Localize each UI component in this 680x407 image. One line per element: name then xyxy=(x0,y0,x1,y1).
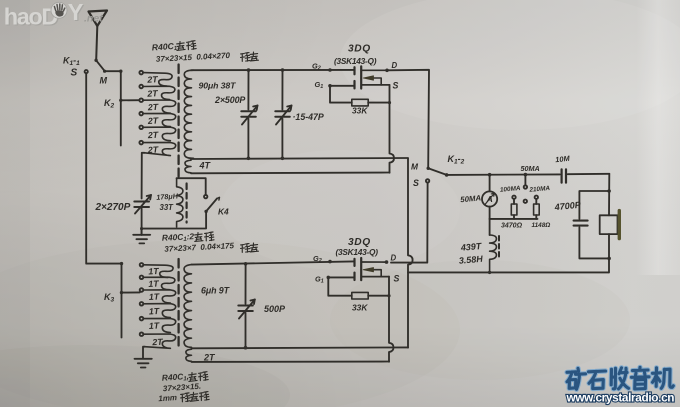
node 4700P bottom xyxy=(607,257,611,261)
wire T2 primary bottom to ground xyxy=(143,347,145,359)
inductor L3 33T coupling xyxy=(177,178,183,227)
label 2T taps T1 xyxy=(146,74,159,155)
resistor 3470 xyxy=(511,196,517,219)
svg-text:S: S xyxy=(393,81,399,91)
node 4700P top xyxy=(607,189,611,193)
node G2 lower terminal xyxy=(328,260,332,264)
wire shunt link xyxy=(524,175,526,186)
transformer T1 secondary winding 38T xyxy=(184,70,193,158)
svg-text:50MA: 50MA xyxy=(521,164,540,173)
node Q1 drain xyxy=(385,69,389,73)
transformer T2 secondary winding 2T xyxy=(186,349,192,361)
svg-text:33K: 33K xyxy=(352,105,368,115)
svg-text:M: M xyxy=(411,161,419,171)
resistor 1148 xyxy=(534,196,540,219)
svg-text:6μh 9T: 6μh 9T xyxy=(201,285,231,295)
switch K2 arm xyxy=(119,99,139,102)
meter A 50MA xyxy=(482,175,497,219)
svg-text:500P: 500P xyxy=(264,304,286,314)
wire coupling loop bottom xyxy=(142,211,207,234)
svg-text:1mm: 1mm xyxy=(158,393,177,403)
svg-text:S: S xyxy=(394,273,400,283)
wire M of K1-1 to K2 bus xyxy=(105,70,121,72)
node coupling bottom join xyxy=(140,227,143,230)
svg-text:4T: 4T xyxy=(199,160,212,170)
svg-text:2T: 2T xyxy=(147,115,159,126)
switch K3 arm xyxy=(120,291,140,294)
node meter top xyxy=(488,173,492,177)
ground T1 tuning xyxy=(133,235,150,244)
svg-text:1148Ω: 1148Ω xyxy=(532,222,551,229)
wire T1 bottom rail to FET1 source xyxy=(191,172,390,175)
variable capacitor 2x500P xyxy=(241,70,257,158)
wire Q1 drain to K1-2 M xyxy=(387,70,429,167)
svg-text:90μh 38T: 90μh 38T xyxy=(199,81,237,91)
node cap1 bottom xyxy=(247,157,251,161)
svg-text:(3SK143-Q): (3SK143-Q) xyxy=(334,56,377,66)
svg-text:D: D xyxy=(392,61,398,70)
hanzi bot2 xyxy=(180,391,209,402)
wire K2 bus vertical xyxy=(120,71,122,145)
resistor 33K lower xyxy=(328,277,389,299)
wire Q2 source down with hop xyxy=(389,277,394,362)
switch K1-2 xyxy=(426,167,449,183)
svg-text:(3SK143-Q): (3SK143-Q) xyxy=(336,247,379,257)
watermark haoDIY xyxy=(4,0,103,31)
wire meter to choke xyxy=(489,219,491,235)
capacitor 10M series xyxy=(562,169,610,182)
core L3 xyxy=(186,184,188,223)
svg-text:www.crystalradio.cn: www.crystalradio.cn xyxy=(566,391,675,405)
hanzi mid1 xyxy=(194,232,214,242)
node Q2 drain xyxy=(385,260,389,264)
inductor 439T choke xyxy=(490,235,497,272)
node cap1 top xyxy=(247,68,251,72)
node K3 bus top xyxy=(120,262,123,265)
node choke bottom xyxy=(488,271,491,274)
svg-text:10M: 10M xyxy=(555,154,571,165)
transistor Q2 3DQ 3SK143 xyxy=(355,258,390,280)
svg-text:1T: 1T xyxy=(149,291,160,302)
wire right rail down xyxy=(608,174,610,216)
wire S of K1-1 down left side xyxy=(86,73,121,263)
node 33K upper join xyxy=(388,101,391,104)
svg-text:2T: 2T xyxy=(146,88,158,99)
svg-text:1T: 1T xyxy=(149,320,160,331)
svg-text:·15-47P: ·15-47P xyxy=(293,112,324,122)
hanzi top1 xyxy=(176,40,196,50)
variable capacitor 500P xyxy=(238,264,255,348)
resistor 33K upper xyxy=(330,86,390,106)
wire T2 bottom rail to FET2 source xyxy=(192,361,390,363)
variable capacitor 2x270P xyxy=(134,195,151,235)
svg-text:33T: 33T xyxy=(160,203,175,212)
node link contact upper xyxy=(524,185,527,188)
wire G2 rail T2 to FET2 xyxy=(192,261,354,264)
node G2 terminal xyxy=(328,68,332,72)
svg-text:2T: 2T xyxy=(146,74,158,85)
switch K1-1 xyxy=(85,59,107,74)
svg-text:haoD: haoD xyxy=(4,3,58,29)
wire K1-2 S down to Q2 drain xyxy=(391,183,428,263)
svg-text:3DQ: 3DQ xyxy=(348,44,371,55)
svg-text:.net: .net xyxy=(84,13,103,25)
node Q1 G1 xyxy=(328,84,332,88)
wire output rail xyxy=(447,173,560,176)
transformer T1 secondary winding 4T xyxy=(185,160,191,173)
node cap2 top xyxy=(281,68,285,72)
svg-text:178μH: 178μH xyxy=(156,191,179,202)
svg-text:2×500P: 2×500P xyxy=(214,95,245,105)
wire Q1 source down with hop xyxy=(390,85,395,173)
node cap2 bottom xyxy=(281,157,285,161)
svg-text:A: A xyxy=(486,194,493,204)
wire T1 primary bottom to tuning cap xyxy=(142,153,145,199)
transformer T2 primary winding 5x1T+2T xyxy=(143,265,175,349)
ground T2 xyxy=(135,359,152,368)
svg-text:S: S xyxy=(71,68,78,79)
svg-text:2T: 2T xyxy=(147,144,159,155)
label 1T taps T2 xyxy=(148,266,163,347)
wire bottom rail xyxy=(408,271,609,273)
transformer T2 core xyxy=(177,259,179,349)
svg-text:2T: 2T xyxy=(147,130,159,141)
svg-text:3470Ω: 3470Ω xyxy=(501,222,523,229)
hanzi mid2 xyxy=(240,243,258,253)
transformer T1 core xyxy=(177,65,179,177)
node 500P top xyxy=(244,262,248,266)
node 500P bottom xyxy=(244,346,248,350)
transformer T1 primary tap contacts xyxy=(139,71,143,145)
svg-text:439T: 439T xyxy=(459,241,483,253)
svg-text:3.58H: 3.58H xyxy=(458,254,483,266)
capacitor 4700P xyxy=(574,191,610,258)
transformer T2 tap contacts xyxy=(140,263,144,336)
transformer T1 primary winding 6x2T xyxy=(143,73,176,156)
svg-text:33K: 33K xyxy=(352,302,368,312)
node 33K lower join xyxy=(387,294,390,297)
wire meter bottom bus xyxy=(490,218,538,220)
svg-text:1T: 1T xyxy=(148,278,159,289)
wire Q1 G1 lead xyxy=(330,85,354,87)
svg-text:M: M xyxy=(100,76,108,86)
svg-text:50MA: 50MA xyxy=(460,193,482,204)
svg-text:S: S xyxy=(413,178,419,188)
node Q2 G1 xyxy=(327,276,331,280)
speaker crystal earphone xyxy=(600,211,620,273)
wire G2 top rail T1 to FET1 xyxy=(191,69,354,71)
wire T1 tap rail xyxy=(191,158,408,159)
variable capacitor 15-47P xyxy=(275,70,291,158)
svg-text:K4: K4 xyxy=(218,206,229,216)
svg-text:D: D xyxy=(391,253,397,262)
wire Q2 G1 lead xyxy=(328,276,353,278)
wire T2 tap rail to ground bus xyxy=(192,346,409,349)
switch K4 xyxy=(204,195,220,213)
antenna xyxy=(89,11,108,60)
wire coupling loop top xyxy=(177,178,206,195)
core 439T xyxy=(498,236,500,259)
svg-text:2T: 2T xyxy=(203,352,216,362)
svg-text:Y: Y xyxy=(68,0,84,25)
svg-text:2T: 2T xyxy=(147,102,159,113)
wire ground bus vertical with hop xyxy=(408,158,413,347)
node link contact lower xyxy=(524,200,527,203)
svg-text:2×270P: 2×270P xyxy=(95,202,131,213)
transformer T2 secondary winding 9T xyxy=(184,265,191,348)
node K2 bus top xyxy=(119,70,122,73)
svg-text:1T: 1T xyxy=(149,306,160,317)
wire K3 bus vertical xyxy=(121,264,123,338)
hanzi top2 xyxy=(240,52,258,62)
hanzi bot1 xyxy=(188,371,208,381)
transistor Q1 3DQ 3SK143 xyxy=(355,66,390,88)
watermark crystalradio blue xyxy=(567,367,673,389)
node shunt top xyxy=(524,173,528,177)
svg-text:1T: 1T xyxy=(148,266,159,277)
svg-text:2T: 2T xyxy=(151,337,163,348)
